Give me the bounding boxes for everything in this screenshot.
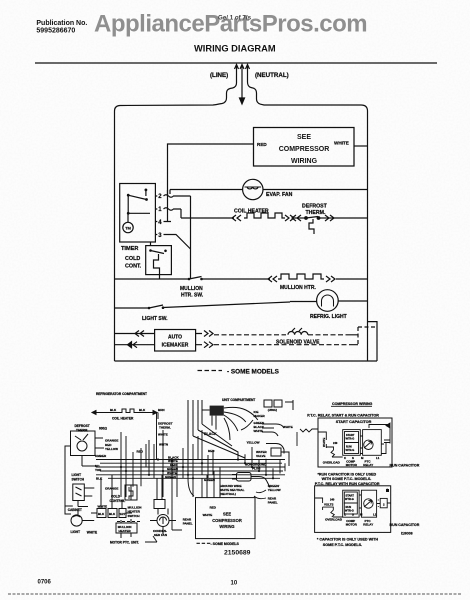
svg-text:GREEN: GREEN <box>204 478 215 482</box>
svg-text:WHTN: WHTN <box>159 443 168 447</box>
svg-text:PLUG: PLUG <box>252 467 261 471</box>
svg-text:AUTO: AUTO <box>168 335 182 341</box>
svg-text:2150689: 2150689 <box>224 550 251 557</box>
svg-text:SOLENOID VALVE: SOLENOID VALVE <box>276 340 320 346</box>
svg-text:DEFROST: DEFROST <box>75 424 90 428</box>
svg-text:WIRING: WIRING <box>291 158 318 165</box>
svg-text:LIGHT: LIGHT <box>72 473 82 477</box>
svg-text:(LINE): (LINE) <box>210 72 228 79</box>
svg-text:PANEL: PANEL <box>183 522 193 526</box>
svg-text:MOTOR: MOTOR <box>346 523 358 527</box>
svg-text:BLK: BLK <box>98 512 105 516</box>
svg-text:CONT.: CONT. <box>125 264 142 270</box>
svg-text:SEE: SEE <box>297 134 311 141</box>
svg-text:ICEMAKER: ICEMAKER <box>162 343 189 349</box>
svg-text:YELLOW: YELLOW <box>268 488 281 492</box>
svg-text:RELAY: RELAY <box>363 523 373 527</box>
svg-text:REFRIG. LIGHT: REFRIG. LIGHT <box>310 314 347 320</box>
svg-text:BLK: BLK <box>110 408 117 412</box>
svg-text:I19008: I19008 <box>401 532 413 536</box>
svg-text:L1: L1 <box>376 456 380 460</box>
svg-text:TM: TM <box>125 226 131 231</box>
svg-text:0706: 0706 <box>38 580 52 586</box>
svg-text:LIGHT: LIGHT <box>71 530 81 534</box>
svg-text:WTR·G: WTR·G <box>346 448 355 452</box>
svg-text:RUN CAPACITOR: RUN CAPACITOR <box>390 463 420 467</box>
svg-text:WIRING DIAGRAM: WIRING DIAGRAM <box>194 44 276 54</box>
svg-text:WHITE: WHITE <box>283 425 293 429</box>
svg-text:10: 10 <box>231 581 238 587</box>
svg-text:START: START <box>346 494 355 498</box>
svg-text:AMBER: AMBER <box>95 454 107 458</box>
svg-text:* CAPACITOR IS ONLY USED WITH: * CAPACITOR IS ONLY USED WITH <box>317 537 378 541</box>
svg-text:1/27: 1/27 <box>120 512 126 516</box>
svg-text:START: START <box>346 433 355 437</box>
svg-text:WHITE: WHITE <box>254 429 264 433</box>
svg-text:(NEUTRAL): (NEUTRAL) <box>220 492 236 496</box>
svg-text:VALVE: VALVE <box>256 454 266 458</box>
svg-text:SEE: SEE <box>223 512 231 517</box>
svg-text:(J58A): (J58A) <box>268 408 277 412</box>
svg-text:BRN: BRN <box>158 408 165 412</box>
svg-text:MAKER: MAKER <box>254 414 266 418</box>
svg-text:MOTOR: MOTOR <box>346 463 358 467</box>
svg-text:GREEN: GREEN <box>165 475 176 479</box>
svg-text:P.T.C. RELAY, START & RUN CAPA: P.T.C. RELAY, START & RUN CAPACITOR <box>307 414 379 418</box>
svg-text:COIL HEATER: COIL HEATER <box>112 417 134 421</box>
svg-text:OVERLOAD: OVERLOAD <box>325 517 343 521</box>
svg-text:SER FAN: SER FAN <box>154 533 167 537</box>
svg-text:S: S <box>352 513 354 517</box>
svg-text:WHITE: WHITE <box>87 531 97 535</box>
svg-text:UNIT COMPARTMENT: UNIT COMPARTMENT <box>222 398 255 402</box>
svg-text:MULLION HTR.: MULLION HTR. <box>280 285 316 291</box>
svg-text:WITH SOME P.T.C. MODELS.: WITH SOME P.T.C. MODELS. <box>322 477 372 481</box>
svg-text:PANEL: PANEL <box>268 501 278 505</box>
svg-text:Publication No.: Publication No. <box>36 20 87 27</box>
svg-text:- SOME MODELS: - SOME MODELS <box>227 369 280 376</box>
svg-text:240: 240 <box>333 441 338 445</box>
svg-text:HEATER: HEATER <box>119 529 132 533</box>
svg-text:L1: L1 <box>373 513 377 517</box>
svg-text:600Ω: 600Ω <box>99 427 107 431</box>
svg-text:Ge/ 1 of 7/s: Ge/ 1 of 7/s <box>218 15 252 22</box>
svg-text:WHITE: WHITE <box>322 438 326 447</box>
svg-text:SWITCH: SWITCH <box>128 514 140 518</box>
svg-text:WIRING: WIRING <box>219 524 234 529</box>
svg-text:WHITE: WHITE <box>203 513 213 517</box>
svg-text:COMPRESSOR WIRING: COMPRESSOR WIRING <box>332 402 373 406</box>
svg-text:SWITCH: SWITCH <box>72 478 85 482</box>
svg-text:RUN: RUN <box>346 445 352 449</box>
svg-text:RUN: RUN <box>346 505 352 509</box>
svg-text:BLK: BLK <box>96 477 103 481</box>
svg-text:5995286670: 5995286670 <box>36 28 75 35</box>
svg-text:OVERLOAD: OVERLOAD <box>323 460 341 464</box>
svg-text:START CAPACITOR: START CAPACITOR <box>336 420 372 424</box>
svg-text:THERM.: THERM. <box>306 210 326 216</box>
svg-text:WTR·G: WTR·G <box>345 497 354 501</box>
svg-text:REFRIGERATOR COMPARTMENT: REFRIGERATOR COMPARTMENT <box>96 392 147 396</box>
svg-text:RUN CAPACITOR: RUN CAPACITOR <box>390 523 420 527</box>
svg-text:VOLTS: VOLTS <box>324 502 333 506</box>
svg-text:HTR. SW.: HTR. SW. <box>181 293 204 299</box>
svg-text:- SOME MODELS: - SOME MODELS <box>211 542 240 546</box>
svg-text:RED: RED <box>137 450 144 454</box>
svg-text:COMPRESSOR: COMPRESSOR <box>212 518 242 523</box>
svg-text:TIMER: TIMER <box>121 246 138 252</box>
svg-text:SOME P.T.C. MODELS.: SOME P.T.C. MODELS. <box>323 543 362 547</box>
svg-text:RED: RED <box>208 449 215 453</box>
svg-text:YELLOW: YELLOW <box>105 447 118 451</box>
svg-text:YELLOW: YELLOW <box>247 441 260 445</box>
svg-text:BLK: BLK <box>139 408 146 412</box>
svg-text:WHITE: WHITE <box>334 141 349 146</box>
svg-text:BLK: BLK <box>109 512 116 516</box>
svg-text:P.T.C. RELAY WITH RUN CAPACITO: P.T.C. RELAY WITH RUN CAPACITOR <box>315 482 380 486</box>
svg-text:RELAY: RELAY <box>363 463 373 467</box>
svg-text:COMPRESSOR: COMPRESSOR <box>279 146 330 153</box>
svg-text:WTR·G: WTR·G <box>346 437 355 441</box>
svg-text:LIGHT SW.: LIGHT SW. <box>142 316 168 322</box>
svg-text:(NEUTRAL): (NEUTRAL) <box>255 72 289 79</box>
svg-text:MOTOR PTC. UNIT.: MOTOR PTC. UNIT. <box>110 541 139 545</box>
svg-text:THERM.: THERM. <box>76 429 88 433</box>
svg-text:EVAP. FAN: EVAP. FAN <box>266 192 293 198</box>
svg-text:RED: RED <box>257 142 267 147</box>
svg-text:MULLION: MULLION <box>180 286 203 292</box>
svg-text:240: 240 <box>330 498 335 502</box>
svg-text:DEFROST: DEFROST <box>302 204 328 210</box>
svg-text:WHITE: WHITE <box>98 505 108 509</box>
svg-text:COLD: COLD <box>125 256 140 262</box>
svg-text:THERM.: THERM. <box>159 426 171 430</box>
svg-text:RED: RED <box>210 506 217 510</box>
svg-text:CABINET: CABINET <box>68 508 82 512</box>
